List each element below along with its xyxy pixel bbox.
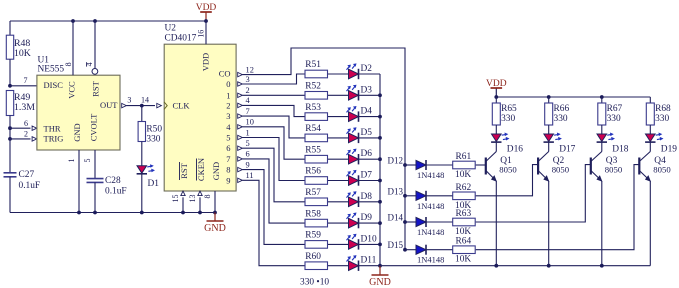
wire D8 cathode to bus: [359, 201, 381, 203]
svg-text:330 •10: 330 •10: [300, 278, 329, 288]
svg-text:TRIG: TRIG: [44, 134, 64, 144]
svg-text:R58: R58: [305, 209, 321, 219]
svg-text:3: 3: [246, 75, 250, 84]
svg-text:C27: C27: [19, 170, 35, 180]
svg-text:2: 2: [24, 130, 28, 139]
wire R58 to D9: [328, 222, 349, 224]
svg-text:D16: D16: [507, 145, 523, 155]
svg-text:D5: D5: [361, 128, 373, 138]
wire bus to D15: [405, 249, 416, 251]
resistor R52: [305, 92, 328, 100]
junction gnd node: [378, 264, 382, 268]
svg-text:8050: 8050: [552, 165, 570, 175]
resistor R64: [453, 246, 476, 254]
svg-text:D4: D4: [361, 107, 373, 117]
wire CKEN pin 13: [198, 191, 202, 196]
svg-text:R50: R50: [146, 124, 162, 134]
wire rail to R65: [495, 97, 497, 103]
svg-text:OUT: OUT: [100, 100, 118, 110]
svg-text:5: 5: [83, 159, 92, 163]
diode D12 1N4148: [416, 160, 426, 169]
output pin 4 arrow: [238, 103, 243, 107]
LED D18: [597, 134, 607, 142]
svg-text:R56: R56: [305, 167, 321, 177]
svg-text:330: 330: [554, 114, 568, 124]
svg-text:7: 7: [226, 154, 230, 164]
wire bus to D13: [405, 195, 416, 197]
wire R49 to THR node: [9, 116, 11, 173]
svg-text:7: 7: [246, 107, 250, 116]
svg-text:C28: C28: [105, 176, 121, 186]
wire D13 to R62: [426, 195, 453, 197]
svg-text:R55: R55: [305, 145, 321, 155]
svg-text:6: 6: [226, 143, 230, 153]
capacitor C28: [87, 178, 104, 180]
wire R50 to D1: [141, 142, 143, 166]
svg-text:1N4148: 1N4148: [417, 255, 444, 265]
svg-text:D15: D15: [388, 240, 404, 250]
LED cathode bus: [379, 74, 381, 266]
svg-text:R67: R67: [607, 104, 623, 114]
svg-text:R60: R60: [305, 252, 321, 262]
svg-text:0.1uF: 0.1uF: [105, 187, 127, 197]
node pin2: [8, 137, 12, 141]
wire output 9 to R510 row: [242, 180, 305, 265]
wire D10 cathode to bus: [359, 243, 381, 245]
svg-text:10K: 10K: [455, 227, 471, 237]
junction bus row D9: [378, 221, 382, 225]
svg-text:U2: U2: [165, 24, 177, 34]
transistor Q2 8050: [537, 158, 539, 175]
svg-text:VDD: VDD: [196, 3, 217, 13]
svg-text:GND: GND: [211, 162, 221, 180]
junction VDD rail R67: [600, 95, 604, 99]
svg-text:10K: 10K: [14, 48, 31, 59]
wire C27 to bottom rail: [9, 177, 11, 213]
wire R65 to D16: [495, 125, 497, 134]
junction bus row D10: [378, 243, 382, 247]
diode D13 1N4148: [416, 191, 426, 200]
svg-text:RST: RST: [91, 80, 101, 96]
wire R61 to Q1 base: [476, 164, 486, 166]
wire bus to D12: [405, 164, 416, 166]
wire output 3 to R54 row: [242, 116, 305, 138]
output pin 12 arrow: [238, 72, 243, 76]
counter U2 CD4017 body: [164, 44, 236, 191]
svg-text:8050: 8050: [605, 165, 623, 175]
wire rail to R68: [649, 97, 651, 103]
svg-text:GND: GND: [369, 277, 391, 288]
junction top rail / VDD stem: [204, 19, 208, 23]
ground (middle): [379, 266, 381, 275]
svg-text:6: 6: [24, 119, 28, 128]
wire D14 to R63: [426, 221, 453, 223]
diode D14 1N4148: [416, 217, 426, 226]
resistor R65: [492, 103, 500, 125]
wire D4 cathode to bus: [359, 116, 381, 118]
svg-text:R61: R61: [456, 152, 472, 162]
wire output 4 to R55 row: [242, 127, 305, 159]
svg-text:13: 13: [188, 195, 197, 203]
wire bus to D14: [405, 221, 416, 223]
resistor R56: [305, 177, 328, 185]
wire Q1 emitter down: [495, 181, 497, 266]
wire CO to diode OR bus (top): [242, 48, 405, 250]
svg-text:330: 330: [655, 114, 669, 124]
svg-text:0.1uF: 0.1uF: [19, 181, 41, 191]
junction top rail / VCC pin 8: [71, 19, 75, 23]
wire OUT pin 3 to CLK pin 14: [122, 103, 127, 107]
svg-text:D19: D19: [661, 145, 677, 155]
svg-text:9: 9: [246, 160, 250, 169]
wire pin 2 (TRIG): [10, 138, 31, 140]
wire R56 to D7: [328, 180, 349, 182]
junction emitter Q3: [600, 264, 604, 268]
svg-text:5: 5: [246, 139, 250, 148]
svg-text:3: 3: [226, 111, 230, 121]
output pin 7 arrow: [238, 114, 243, 118]
junction bus row D8: [378, 200, 382, 204]
resistor R50: [138, 122, 145, 142]
junction diode bus D12: [403, 163, 407, 167]
resistor R67: [598, 103, 606, 125]
svg-text:10K: 10K: [455, 170, 471, 180]
svg-text:DISC: DISC: [44, 80, 64, 90]
junction bus row D5: [378, 136, 382, 140]
svg-text:2: 2: [246, 86, 250, 95]
wire output 1 to R52 row: [242, 94, 305, 96]
svg-text:D6: D6: [361, 149, 373, 159]
wire R62 to Q2 base riser: [476, 165, 538, 196]
wire output 2 to R53 row: [242, 105, 305, 116]
svg-text:THR: THR: [44, 123, 61, 133]
LED D4: [349, 112, 359, 122]
svg-text:R59: R59: [305, 231, 321, 241]
junction top rail / RST pin 4: [93, 19, 97, 23]
wire to R50: [141, 106, 143, 122]
wire R48 to node: [9, 59, 11, 86]
wire D16 to Q1 collector: [495, 143, 497, 152]
LED D19: [646, 134, 656, 142]
svg-text:RST: RST: [179, 162, 189, 178]
wire R51 to D2: [328, 73, 349, 75]
wire pin 7 (DISC): [10, 85, 37, 87]
svg-text:R65: R65: [501, 104, 517, 114]
svg-text:5: 5: [226, 133, 230, 143]
wire R53 to D4: [328, 116, 349, 118]
svg-text:D13: D13: [388, 186, 404, 196]
svg-text:R66: R66: [554, 104, 570, 114]
svg-text:0: 0: [226, 79, 230, 89]
svg-text:8: 8: [226, 165, 230, 175]
output pin 5 arrow: [238, 146, 243, 150]
svg-text:1N4148: 1N4148: [417, 227, 444, 237]
node pin7: [8, 84, 12, 88]
wire D1 to rail: [141, 174, 143, 213]
resistor R54: [305, 134, 328, 142]
wire R57 to D8: [328, 201, 349, 203]
svg-text:R53: R53: [305, 103, 321, 113]
VDD power symbol (right): [495, 88, 497, 97]
wire R52 to D3: [328, 94, 349, 96]
LED D10: [349, 240, 359, 250]
wire output 8 to R59 row: [242, 170, 305, 245]
svg-text:8050: 8050: [499, 165, 517, 175]
svg-text:R64: R64: [456, 237, 472, 247]
junction emitter Q2: [547, 264, 551, 268]
svg-text:CLK: CLK: [173, 101, 191, 111]
output pin 2 arrow: [238, 93, 243, 97]
svg-text:CO: CO: [219, 69, 231, 79]
junction bus row D7: [378, 179, 382, 183]
svg-text:CVOLT: CVOLT: [89, 113, 99, 141]
wire D6 cathode to bus: [359, 158, 381, 160]
svg-text:1N4148: 1N4148: [417, 170, 444, 180]
wire output 7 to R58 row: [242, 159, 305, 223]
svg-text:NE555: NE555: [38, 65, 65, 75]
junction diode bus D13: [403, 194, 407, 198]
wire D19 to Q4 collector: [649, 143, 651, 152]
wire left rail upper: [9, 21, 11, 35]
top power rail: [10, 20, 206, 22]
wire R67 to D18: [601, 125, 603, 134]
svg-text:D11: D11: [361, 256, 377, 266]
wire output 6 to R57 row: [242, 148, 305, 202]
resistor R53: [305, 113, 328, 121]
resistor R55: [305, 155, 328, 163]
LED D2: [349, 69, 359, 79]
svg-text:D1: D1: [148, 179, 160, 189]
resistor R57: [305, 198, 328, 206]
svg-text:330: 330: [146, 134, 160, 144]
LED D3: [349, 91, 359, 101]
svg-text:12: 12: [246, 65, 254, 74]
svg-text:D2: D2: [361, 64, 373, 74]
wire output 5 to R56 row: [242, 138, 305, 181]
output pin 6 arrow: [238, 157, 243, 161]
svg-text:2: 2: [226, 100, 230, 110]
wire GND pin 1: [78, 150, 80, 213]
svg-text:VCC: VCC: [67, 81, 77, 99]
svg-text:1: 1: [67, 159, 76, 163]
wire VDD pin 16: [205, 21, 207, 44]
svg-text:14: 14: [141, 96, 149, 105]
wire D2 cathode to bus: [359, 73, 381, 75]
svg-text:7: 7: [24, 76, 28, 85]
svg-text:D10: D10: [361, 234, 377, 244]
wire Q2 emitter down: [548, 181, 550, 266]
svg-text:330: 330: [501, 114, 515, 124]
svg-text:GND: GND: [72, 123, 82, 141]
output pin 10 arrow: [238, 125, 243, 129]
wire GND pin 8: [214, 191, 216, 213]
wire RST pin 15: [181, 191, 185, 196]
svg-text:VDD: VDD: [486, 79, 507, 89]
svg-text:10K: 10K: [455, 255, 471, 265]
wire rail to R66: [548, 97, 550, 103]
LED D5: [349, 133, 359, 143]
wire D12 to R61: [426, 164, 453, 166]
wire Q4 emitter down: [649, 181, 651, 266]
output pin 1 arrow: [238, 135, 243, 139]
svg-text:R57: R57: [305, 188, 321, 198]
svg-text:R52: R52: [305, 82, 321, 92]
wire D5 cathode to bus: [359, 137, 381, 139]
svg-text:1N4148: 1N4148: [417, 201, 444, 211]
wire R59 to D10: [328, 243, 349, 245]
wire C28 to rail: [94, 182, 96, 212]
ground (left section): [214, 213, 216, 222]
wire R60 to D11: [328, 265, 349, 267]
resistor R63: [453, 218, 476, 226]
svg-text:R54: R54: [305, 124, 321, 134]
resistor R49: [6, 91, 13, 116]
svg-text:16: 16: [197, 30, 206, 38]
node R50 top: [140, 104, 144, 108]
output pin 9 arrow: [238, 167, 243, 171]
svg-text:D17: D17: [559, 145, 575, 155]
svg-text:R63: R63: [456, 209, 472, 219]
resistor R51: [305, 70, 328, 78]
svg-text:9: 9: [226, 175, 230, 185]
junction bus row D3: [378, 93, 382, 97]
wire D18 to Q3 collector: [601, 143, 603, 152]
svg-text:8: 8: [64, 62, 73, 66]
wire R63 to Q3 base riser: [476, 165, 591, 222]
wire D3 cathode to bus: [359, 94, 381, 96]
svg-text:1.3M: 1.3M: [14, 102, 35, 113]
wire R68 to D19: [649, 125, 651, 134]
svg-text:330: 330: [607, 114, 621, 124]
resistor R61: [453, 161, 476, 169]
wire D11 cathode to gnd node: [359, 265, 381, 267]
wire Q3 emitter down: [601, 181, 603, 266]
junction VDD rail R66: [547, 95, 551, 99]
wire CVOLT pin 5: [94, 150, 96, 178]
svg-text:CD4017: CD4017: [165, 34, 197, 44]
wire rail to R67: [601, 97, 603, 103]
resistor R62: [453, 192, 476, 200]
VDD power symbol (top, NE555/CD4017 supply): [205, 12, 207, 21]
junction emitter Q1: [494, 264, 498, 268]
junction bus row D4: [378, 115, 382, 119]
emitter ground rail: [380, 265, 650, 267]
wire RST pin 4 with bubble: [94, 21, 96, 68]
junction bus row D6: [378, 157, 382, 161]
LED D17: [544, 134, 554, 142]
svg-text:D8: D8: [361, 192, 373, 202]
wire D15 to R64: [426, 249, 453, 251]
svg-text:11: 11: [246, 171, 254, 180]
svg-text:D18: D18: [612, 145, 628, 155]
svg-text:6: 6: [246, 150, 250, 159]
svg-text:CKEN: CKEN: [196, 158, 206, 181]
wire pin 6 (THR): [10, 127, 31, 129]
resistor R59: [305, 241, 328, 249]
LED D7: [349, 176, 359, 186]
junction diode bus D15: [403, 248, 407, 252]
svg-text:R62: R62: [456, 183, 472, 193]
resistor R60: [305, 262, 328, 270]
bottom ground rail: [10, 212, 215, 214]
svg-text:10: 10: [246, 118, 254, 127]
svg-text:8050: 8050: [653, 165, 671, 175]
svg-text:R68: R68: [655, 104, 671, 114]
transistor Q4 8050: [638, 158, 640, 175]
resistor R58: [305, 219, 328, 227]
transistor Q1 8050: [485, 158, 487, 175]
capacitor C27: [4, 172, 17, 174]
LED D9: [349, 218, 359, 228]
svg-text:VDD: VDD: [201, 53, 211, 71]
svg-text:D14: D14: [388, 213, 404, 223]
junction diode bus D14: [403, 220, 407, 224]
svg-text:8: 8: [203, 195, 212, 199]
node pin6: [8, 126, 12, 130]
wire VCC pin 8: [72, 21, 74, 75]
CLK edge marker: [164, 102, 167, 110]
wire D7 cathode to bus: [359, 180, 381, 182]
svg-text:3: 3: [127, 96, 131, 105]
LED D1: [137, 166, 147, 174]
svg-text:D12: D12: [388, 156, 404, 166]
output pin 11 arrow: [238, 178, 243, 182]
wire R66 to D17: [548, 125, 550, 134]
resistor R68: [646, 103, 654, 125]
svg-text:1: 1: [246, 128, 250, 137]
LED D6: [349, 154, 359, 164]
transistor Q3 8050: [590, 158, 592, 175]
wire D17 to Q2 collector: [548, 143, 550, 152]
wire R55 to D6: [328, 158, 349, 160]
svg-text:GND: GND: [204, 223, 226, 234]
wire D9 cathode to bus: [359, 222, 381, 224]
svg-text:15: 15: [171, 195, 180, 203]
svg-text:R51: R51: [305, 60, 321, 70]
wire output 0 to R51 row: [242, 74, 305, 84]
svg-text:D9: D9: [361, 213, 373, 223]
resistor R48: [6, 35, 13, 59]
output pin 3 arrow: [238, 82, 243, 86]
diode D15 1N4148: [416, 245, 426, 254]
op-amp U1 NE555 body: [37, 75, 120, 150]
wire R64 to Q4 base riser: [476, 165, 640, 250]
LED D8: [349, 197, 359, 207]
LED D11: [349, 261, 359, 271]
LED D16: [492, 134, 502, 142]
resistor R66: [545, 103, 553, 125]
svg-text:1: 1: [226, 90, 230, 100]
wire R54 to D5: [328, 137, 349, 139]
svg-text:D7: D7: [361, 171, 373, 181]
VDD rail (right): [496, 96, 650, 98]
svg-text:D3: D3: [361, 85, 373, 95]
